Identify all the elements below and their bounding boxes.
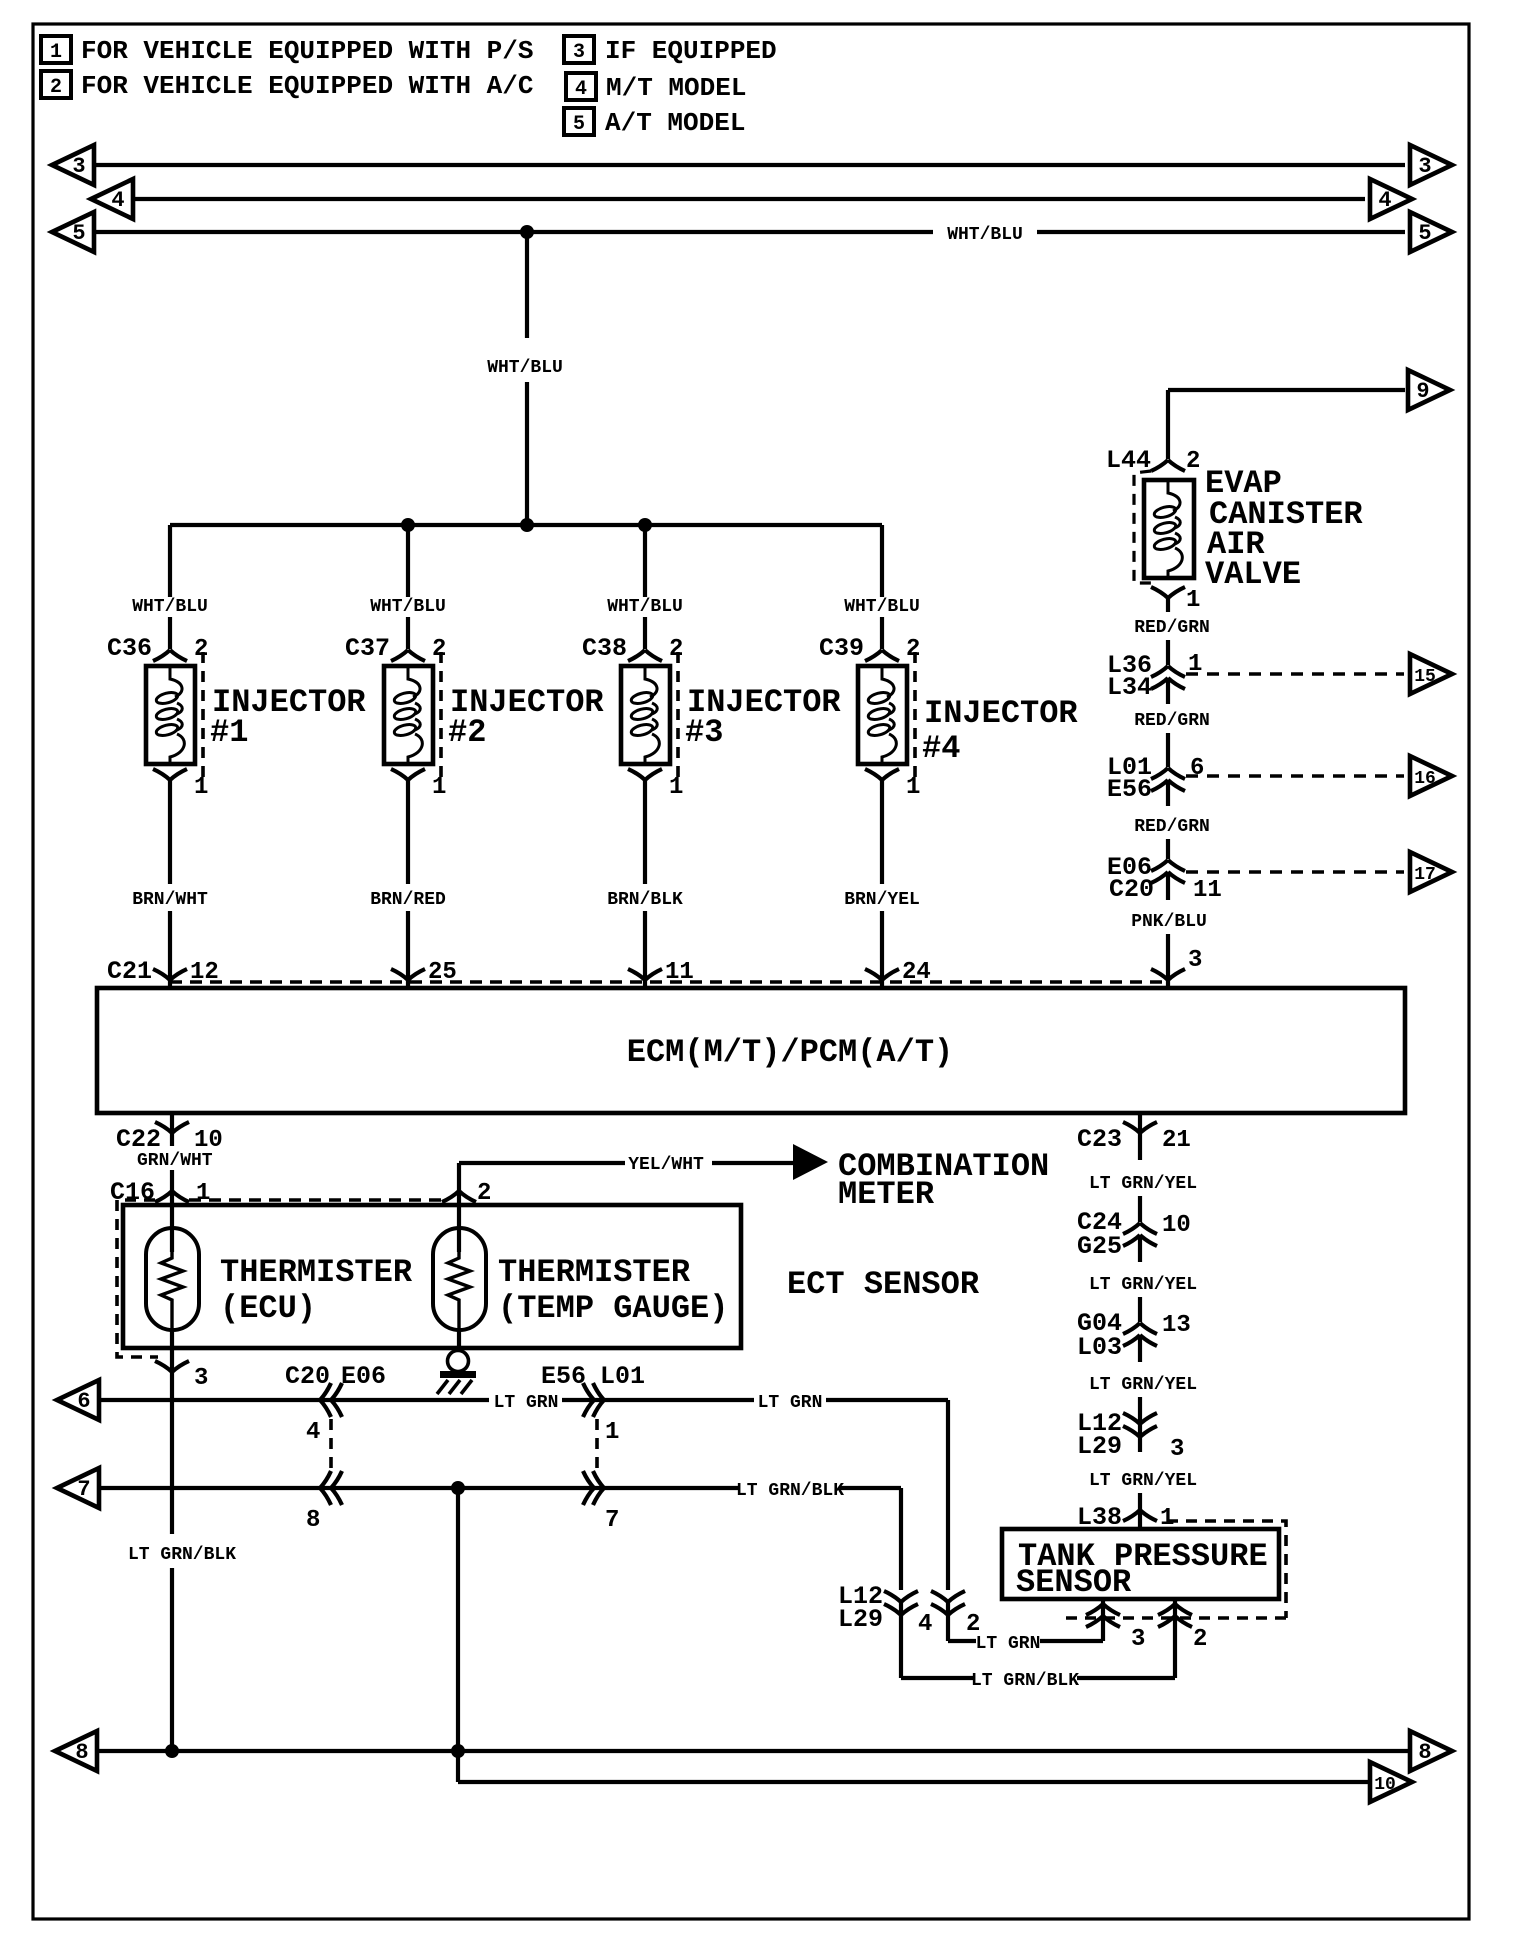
injector coil L4 (C39) bbox=[858, 652, 915, 778]
connector arrow 17 (right) bbox=[1410, 852, 1452, 892]
svg-text:1: 1 bbox=[669, 774, 683, 801]
svg-text:6: 6 bbox=[77, 1389, 90, 1414]
svg-text:1: 1 bbox=[1186, 587, 1200, 614]
wire WHT/BLU to injector 2 (upper) bbox=[406, 525, 410, 597]
tank pressure sensor box bbox=[1002, 1529, 1279, 1601]
dashed connector outline (C16 side) bbox=[117, 1200, 158, 1357]
wire bus line 5 (left segment) bbox=[94, 230, 933, 234]
svg-text:LT GRN/YEL: LT GRN/YEL bbox=[1089, 1174, 1197, 1194]
svg-text:1: 1 bbox=[605, 1419, 619, 1446]
wire BRN/WHT from injector 1 (upper) bbox=[168, 780, 172, 884]
junction line 8 / LT GRN/BLK bbox=[165, 1744, 179, 1758]
svg-text:(TEMP GAUGE): (TEMP GAUGE) bbox=[498, 1290, 728, 1327]
connector arrow 3 (right) bbox=[1410, 145, 1452, 185]
wire WHT/BLU to injector 4 (lower) bbox=[880, 617, 884, 649]
wire LT GRN/BLK stub bbox=[901, 1676, 973, 1680]
wire LT GRN/BLK vertical (upper) bbox=[170, 1374, 174, 1534]
svg-text:C37: C37 bbox=[345, 634, 390, 663]
connector arrow 5 (left) bbox=[52, 212, 94, 252]
svg-text:3: 3 bbox=[72, 154, 85, 179]
svg-text:E56: E56 bbox=[1107, 775, 1152, 804]
svg-text:4: 4 bbox=[575, 78, 587, 101]
junction line 8 / ground drop bbox=[451, 1744, 465, 1758]
dashed wire to arrow 17 bbox=[1186, 870, 1404, 874]
junction on bus 5 bbox=[520, 225, 534, 239]
wire WHT/BLU main drop (lower) bbox=[525, 382, 529, 525]
junction line 7 / ground drop bbox=[451, 1481, 465, 1495]
wire BRN/WHT from injector 1 (lower) bbox=[168, 911, 172, 958]
svg-text:1: 1 bbox=[194, 774, 208, 801]
wire LT GRN line 6 (right segment) bbox=[826, 1398, 948, 1402]
wire WHT/BLU to injector 1 (upper) bbox=[168, 525, 172, 597]
svg-text:LT GRN: LT GRN bbox=[758, 1393, 823, 1413]
svg-text:15: 15 bbox=[1414, 667, 1436, 687]
svg-text:SENSOR: SENSOR bbox=[1016, 1564, 1132, 1601]
svg-text:7: 7 bbox=[605, 1507, 619, 1534]
wire WHT/BLU to injector 3 (upper) bbox=[643, 525, 647, 597]
svg-text:L03: L03 bbox=[1077, 1333, 1122, 1362]
connector L12/L29 pin 3 bbox=[1077, 1409, 1184, 1463]
svg-text:4: 4 bbox=[111, 188, 124, 213]
svg-text:16: 16 bbox=[1414, 769, 1436, 789]
svg-text:6: 6 bbox=[1190, 755, 1204, 782]
svg-text:WHT/BLU: WHT/BLU bbox=[370, 597, 446, 617]
connector C20/E06 pin 4 (line 6) bbox=[285, 1362, 386, 1446]
injector coil L2 (C37) bbox=[384, 652, 441, 778]
svg-text:ECT SENSOR: ECT SENSOR bbox=[787, 1266, 980, 1303]
wire RED/GRN (middle) bbox=[1166, 733, 1170, 767]
connector arrow 8 (right) bbox=[1410, 1731, 1452, 1771]
svg-text:9: 9 bbox=[1416, 379, 1429, 404]
svg-text:(ECU): (ECU) bbox=[220, 1290, 316, 1327]
svg-text:BRN/WHT: BRN/WHT bbox=[132, 890, 208, 910]
dashed connector link (pin 4 to pin 8) bbox=[329, 1419, 333, 1470]
connector E06/C20 pin 11 bbox=[1107, 853, 1222, 904]
legend key 3 bbox=[564, 36, 777, 66]
svg-text:THERMISTER: THERMISTER bbox=[220, 1254, 413, 1291]
svg-text:1: 1 bbox=[906, 774, 920, 801]
connector arrow 3 (left) bbox=[52, 145, 94, 185]
svg-text:LT GRN: LT GRN bbox=[494, 1393, 559, 1413]
svg-text:3: 3 bbox=[573, 41, 585, 64]
connector G04/L03 pin 13 bbox=[1077, 1309, 1191, 1362]
svg-text:G25: G25 bbox=[1077, 1232, 1122, 1261]
wire BRN/BLK from injector 3 (upper) bbox=[643, 780, 647, 884]
junction header / injector 3 bbox=[638, 518, 652, 532]
svg-text:C21: C21 bbox=[107, 957, 152, 986]
connector L38 pin 1 bbox=[1077, 1503, 1174, 1532]
connector arrow 10 (right) bbox=[1370, 1762, 1412, 1802]
svg-text:C39: C39 bbox=[819, 634, 864, 663]
wire drop to line 10 bbox=[456, 1751, 460, 1782]
connector C21 pin 25 bbox=[391, 958, 457, 988]
wire LT GRN/BLK below pin 4 bbox=[899, 1602, 903, 1678]
wire bus line 5 (right segment) bbox=[1037, 230, 1405, 234]
wire LT GRN/BLK line 7 (left segment) bbox=[99, 1486, 740, 1490]
svg-text:#4: #4 bbox=[922, 730, 960, 767]
wire LT GRN drop (from line 6) bbox=[946, 1400, 950, 1590]
wire bus line 4 bbox=[133, 197, 1365, 201]
svg-text:L29: L29 bbox=[838, 1605, 883, 1634]
connector C21 pin 12 bbox=[153, 958, 219, 988]
dashed connector link (pin 1 to pin 7) bbox=[595, 1419, 599, 1470]
svg-text:VALVE: VALVE bbox=[1205, 556, 1301, 593]
svg-text:17: 17 bbox=[1414, 865, 1436, 885]
connector C37 pin 1 bbox=[391, 769, 446, 801]
connector E56/L01 pin 1 (line 6) bbox=[541, 1362, 645, 1446]
dashed harness line above ECM (C21) bbox=[170, 980, 1168, 984]
svg-text:L29: L29 bbox=[1077, 1432, 1122, 1461]
EVAP canister air valve coil bbox=[1134, 471, 1194, 583]
injector coil L3 (C38) bbox=[621, 652, 678, 778]
svg-text:L34: L34 bbox=[1107, 673, 1152, 702]
svg-text:8: 8 bbox=[306, 1507, 320, 1534]
connector C24/G25 pin 10 bbox=[1077, 1208, 1191, 1261]
tank sensor pin 3 bbox=[1086, 1599, 1145, 1653]
connector C20/E06 pin 8 (line 7) bbox=[306, 1471, 342, 1534]
svg-text:13: 13 bbox=[1162, 1312, 1191, 1339]
svg-text:LT GRN/BLK: LT GRN/BLK bbox=[736, 1481, 844, 1501]
svg-text:THERMISTER: THERMISTER bbox=[498, 1254, 691, 1291]
dashed connector outline (tank sensor) bbox=[1064, 1521, 1286, 1618]
wire BRN/YEL from injector 4 (lower) bbox=[880, 911, 884, 958]
svg-text:5: 5 bbox=[573, 113, 585, 136]
svg-text:2: 2 bbox=[1186, 448, 1200, 475]
ECM U1 box bbox=[97, 988, 1405, 1113]
legend key 4 bbox=[566, 73, 746, 103]
label COMBINATION METER bbox=[838, 1148, 1049, 1213]
svg-text:WHT/BLU: WHT/BLU bbox=[487, 358, 563, 378]
wire LT GRN/BLK vertical (lower) bbox=[170, 1568, 174, 1751]
connector L12/L29 pin 4 bbox=[838, 1582, 932, 1638]
svg-text:IF EQUIPPED: IF EQUIPPED bbox=[605, 36, 777, 66]
svg-text:FOR VEHICLE EQUIPPED WITH A/C: FOR VEHICLE EQUIPPED WITH A/C bbox=[81, 71, 533, 101]
connector L44 pin 2 bbox=[1106, 446, 1200, 475]
wire GRN/WHT bbox=[170, 1170, 174, 1191]
dashed harness line C16 bbox=[189, 1198, 443, 1202]
svg-text:WHT/BLU: WHT/BLU bbox=[607, 597, 683, 617]
svg-text:RED/GRN: RED/GRN bbox=[1134, 711, 1210, 731]
svg-text:5: 5 bbox=[72, 221, 85, 246]
connector arrow 4 (right) bbox=[1370, 179, 1412, 219]
wire LT GRN/BLK line 7 (right segment) bbox=[840, 1486, 901, 1490]
label INJECTOR #2 bbox=[448, 684, 604, 751]
svg-text:C38: C38 bbox=[582, 634, 627, 663]
svg-text:4: 4 bbox=[306, 1419, 320, 1446]
dashed wire to arrow 16 bbox=[1186, 774, 1404, 778]
connector arrow 4 (left) bbox=[91, 179, 133, 219]
svg-text:10: 10 bbox=[1162, 1212, 1191, 1239]
svg-text:2: 2 bbox=[1193, 1626, 1207, 1653]
svg-text:WHT/BLU: WHT/BLU bbox=[844, 597, 920, 617]
dashed wire to arrow 15 bbox=[1186, 672, 1404, 676]
svg-text:BRN/RED: BRN/RED bbox=[370, 890, 446, 910]
svg-text:10: 10 bbox=[1374, 1775, 1396, 1795]
wire BRN/RED from injector 2 (lower) bbox=[406, 911, 410, 958]
wire LT GRN/YEL (1) bbox=[1138, 1196, 1142, 1222]
svg-text:LT GRN/YEL: LT GRN/YEL bbox=[1089, 1471, 1197, 1491]
connector C21 pin 24 bbox=[865, 958, 931, 988]
svg-text:3: 3 bbox=[1131, 1626, 1145, 1653]
connector C21 pin 11 bbox=[628, 958, 694, 988]
wire bus line 3 bbox=[94, 163, 1405, 167]
label THERMISTER (TEMP GAUGE) bbox=[498, 1254, 728, 1327]
svg-text:#1: #1 bbox=[210, 714, 248, 751]
svg-text:5: 5 bbox=[1418, 221, 1431, 246]
svg-text:LT GRN: LT GRN bbox=[976, 1634, 1041, 1654]
connector C22 pin 10 bbox=[116, 1113, 223, 1154]
wire BRN/RED from injector 2 (upper) bbox=[406, 780, 410, 884]
svg-text:4: 4 bbox=[918, 1611, 932, 1638]
svg-text:2: 2 bbox=[50, 76, 62, 99]
svg-text:1: 1 bbox=[50, 41, 62, 64]
connector arrow 5 (right) bbox=[1410, 212, 1452, 252]
svg-text:11: 11 bbox=[1193, 877, 1222, 904]
thermister (TEMP GAUGE) R2 bbox=[433, 1191, 486, 1351]
wire LT GRN/BLK to tank sensor pin 2 bbox=[1077, 1676, 1175, 1680]
svg-text:#2: #2 bbox=[448, 714, 486, 751]
connector C38 pin 2 bbox=[582, 634, 683, 663]
connector L44/EVAP pin 1 bbox=[1151, 587, 1200, 614]
tank sensor pin 2 bbox=[1158, 1599, 1207, 1678]
wire bus line 8 bbox=[97, 1749, 1408, 1753]
svg-text:4: 4 bbox=[1378, 188, 1391, 213]
ground symbol (temp gauge) bbox=[437, 1351, 476, 1395]
legend key 1 bbox=[41, 36, 533, 66]
svg-text:GRN/WHT: GRN/WHT bbox=[137, 1151, 213, 1171]
label THERMISTER (ECU) bbox=[220, 1254, 413, 1327]
wire to arrow 9 bbox=[1168, 388, 1405, 392]
wire LT GRN stub bbox=[948, 1639, 976, 1643]
wire RED/GRN (upper) bbox=[1166, 640, 1170, 665]
svg-text:1: 1 bbox=[432, 774, 446, 801]
connector C39 pin 2 bbox=[819, 634, 920, 663]
arrowhead to combination meter bbox=[793, 1144, 828, 1180]
label INJECTOR #3 bbox=[685, 684, 841, 751]
svg-text:E06: E06 bbox=[341, 1362, 386, 1391]
wire BRN/YEL from injector 4 (upper) bbox=[880, 780, 884, 884]
svg-text:#3: #3 bbox=[685, 714, 723, 751]
connector arrow 9 (right) bbox=[1408, 370, 1450, 410]
svg-text:3: 3 bbox=[1418, 154, 1431, 179]
wire bus line 10 bbox=[458, 1780, 1368, 1784]
connector arrow 8 (left) bbox=[55, 1731, 97, 1771]
wire LT GRN below pin 2 bbox=[946, 1602, 950, 1641]
svg-text:LT GRN/BLK: LT GRN/BLK bbox=[971, 1671, 1079, 1691]
wire sensor ground drop bbox=[456, 1488, 460, 1751]
connector C36 pin 1 bbox=[153, 769, 208, 801]
connector C16 pin 1 bbox=[110, 1178, 210, 1207]
wire YEL/WHT to combination meter bbox=[459, 1163, 793, 1191]
svg-text:21: 21 bbox=[1162, 1127, 1191, 1154]
svg-text:WHT/BLU: WHT/BLU bbox=[947, 225, 1023, 245]
legend key 5 bbox=[564, 108, 745, 138]
wire injector distribution header bbox=[170, 523, 882, 527]
wire LT GRN line 6 (middle segment) bbox=[562, 1398, 754, 1402]
svg-text:INJECTOR: INJECTOR bbox=[924, 695, 1078, 732]
svg-text:L01: L01 bbox=[600, 1362, 645, 1391]
svg-text:8: 8 bbox=[75, 1740, 88, 1765]
svg-text:C23: C23 bbox=[1077, 1125, 1122, 1154]
wire WHT/BLU to injector 2 (lower) bbox=[406, 617, 410, 649]
junction header / injector 2 bbox=[401, 518, 415, 532]
svg-text:C22: C22 bbox=[116, 1125, 161, 1154]
ECT sensor box bbox=[123, 1205, 741, 1348]
wire WHT/BLU to EVAP valve bbox=[1166, 390, 1170, 459]
svg-text:3: 3 bbox=[194, 1365, 208, 1392]
svg-text:LT GRN/BLK: LT GRN/BLK bbox=[128, 1545, 236, 1565]
injector coil L1 (C36) bbox=[146, 652, 203, 778]
connector L36/L34 pin 1 bbox=[1107, 651, 1202, 702]
svg-text:C36: C36 bbox=[107, 634, 152, 663]
wire LT GRN to tank sensor pin 3 bbox=[1040, 1639, 1103, 1643]
wire WHT/BLU to injector 1 (lower) bbox=[168, 617, 172, 649]
legend key 2 bbox=[41, 71, 533, 101]
connector C38 pin 1 bbox=[628, 769, 683, 801]
connector C21 pin 3 bbox=[1151, 947, 1202, 988]
wire LT GRN/YEL (2) bbox=[1138, 1297, 1142, 1322]
connector C36 pin 2 bbox=[107, 634, 208, 663]
svg-text:7: 7 bbox=[77, 1477, 90, 1502]
connector arrow 6 (left) bbox=[57, 1380, 99, 1420]
connector arrow 16 (right) bbox=[1410, 756, 1452, 796]
connector C23 pin 21 bbox=[1077, 1113, 1191, 1160]
label EVAP CANISTER AIR VALVE bbox=[1205, 465, 1363, 593]
wire PNK/BLU bbox=[1166, 934, 1170, 958]
svg-text:ECM(M/T)/PCM(A/T): ECM(M/T)/PCM(A/T) bbox=[627, 1034, 953, 1071]
wire RED/GRN stub below EVAP bbox=[1166, 598, 1170, 612]
connector L12/L29 pin 2 bbox=[931, 1591, 980, 1638]
connector arrow 15 (right) bbox=[1410, 654, 1452, 694]
thermister (ECU) R1 bbox=[146, 1191, 199, 1330]
svg-text:RED/GRN: RED/GRN bbox=[1134, 817, 1210, 837]
wire WHT/BLU to injector 4 (upper) bbox=[880, 525, 884, 597]
wire RED/GRN (lower) bbox=[1166, 839, 1170, 859]
wire LT GRN/YEL (4) bbox=[1138, 1493, 1142, 1529]
svg-text:10: 10 bbox=[194, 1127, 223, 1154]
wire WHT/BLU main drop (upper) bbox=[525, 232, 529, 338]
connector C39 pin 1 bbox=[865, 769, 920, 801]
connector arrow 7 (left) bbox=[57, 1468, 99, 1508]
connector L01/E56 pin 6 bbox=[1107, 753, 1204, 804]
label INJECTOR #1 bbox=[210, 684, 366, 751]
wire LT GRN line 6 (left segment) bbox=[99, 1398, 489, 1402]
connector C16 pin 3 bbox=[155, 1330, 208, 1392]
wire WHT/BLU to injector 3 (lower) bbox=[643, 617, 647, 649]
svg-text:FOR VEHICLE EQUIPPED WITH P/S: FOR VEHICLE EQUIPPED WITH P/S bbox=[81, 36, 533, 66]
connector C16 pin 2 (temp gauge) bbox=[442, 1180, 491, 1207]
svg-text:LT GRN/YEL: LT GRN/YEL bbox=[1089, 1275, 1197, 1295]
svg-text:BRN/BLK: BRN/BLK bbox=[607, 890, 683, 910]
wire BRN/BLK from injector 3 (lower) bbox=[643, 911, 647, 958]
label INJECTOR #4 bbox=[922, 695, 1078, 767]
junction header / main drop bbox=[520, 518, 534, 532]
svg-text:3: 3 bbox=[1188, 947, 1202, 974]
svg-text:WHT/BLU: WHT/BLU bbox=[132, 597, 208, 617]
svg-text:RED/GRN: RED/GRN bbox=[1134, 618, 1210, 638]
svg-text:BRN/YEL: BRN/YEL bbox=[844, 890, 920, 910]
svg-text:C20: C20 bbox=[1109, 875, 1154, 904]
svg-text:C20: C20 bbox=[285, 1362, 330, 1391]
svg-text:A/T MODEL: A/T MODEL bbox=[605, 108, 745, 138]
svg-text:8: 8 bbox=[1418, 1740, 1431, 1765]
svg-text:LT GRN/YEL: LT GRN/YEL bbox=[1089, 1375, 1197, 1395]
svg-text:PNK/BLU: PNK/BLU bbox=[1131, 912, 1207, 932]
connector C37 pin 2 bbox=[345, 634, 446, 663]
svg-text:3: 3 bbox=[1170, 1436, 1184, 1463]
wire LT GRN/YEL (3) bbox=[1138, 1397, 1142, 1424]
connector E56/L01 pin 7 (line 7) bbox=[583, 1471, 619, 1534]
wire LT GRN/BLK drop (from line 7) bbox=[899, 1488, 903, 1590]
svg-text:METER: METER bbox=[838, 1176, 935, 1213]
svg-text:YEL/WHT: YEL/WHT bbox=[628, 1155, 704, 1175]
svg-text:E56: E56 bbox=[541, 1362, 586, 1391]
svg-text:M/T MODEL: M/T MODEL bbox=[606, 73, 746, 103]
